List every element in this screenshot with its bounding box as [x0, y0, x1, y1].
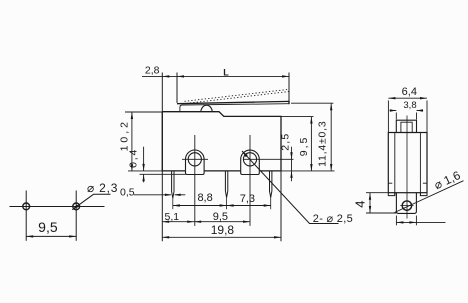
- svg-text:0,4: 0,4: [127, 148, 139, 168]
- svg-text:2- ⌀ 2,5: 2- ⌀ 2,5: [313, 213, 353, 225]
- svg-text:9,5: 9,5: [38, 219, 58, 235]
- svg-text:5,1: 5,1: [164, 211, 179, 223]
- svg-text:6,4: 6,4: [402, 86, 417, 98]
- svg-text:0,5: 0,5: [120, 187, 135, 199]
- svg-text:8,8: 8,8: [197, 192, 212, 204]
- svg-text:2,8: 2,8: [145, 65, 160, 77]
- svg-text:4: 4: [353, 201, 368, 208]
- svg-text:11,4±0,3: 11,4±0,3: [317, 120, 329, 166]
- svg-text:19,8: 19,8: [211, 223, 235, 237]
- svg-text:9,5: 9,5: [213, 211, 228, 223]
- svg-text:2,5: 2,5: [279, 133, 291, 151]
- svg-text:9,5: 9,5: [298, 136, 310, 157]
- svg-text:L: L: [223, 68, 229, 78]
- svg-text:10,2: 10,2: [119, 119, 131, 151]
- svg-text:7,3: 7,3: [240, 193, 255, 205]
- svg-text:⌀ 2,3: ⌀ 2,3: [87, 181, 118, 195]
- svg-text:3,8: 3,8: [403, 100, 416, 111]
